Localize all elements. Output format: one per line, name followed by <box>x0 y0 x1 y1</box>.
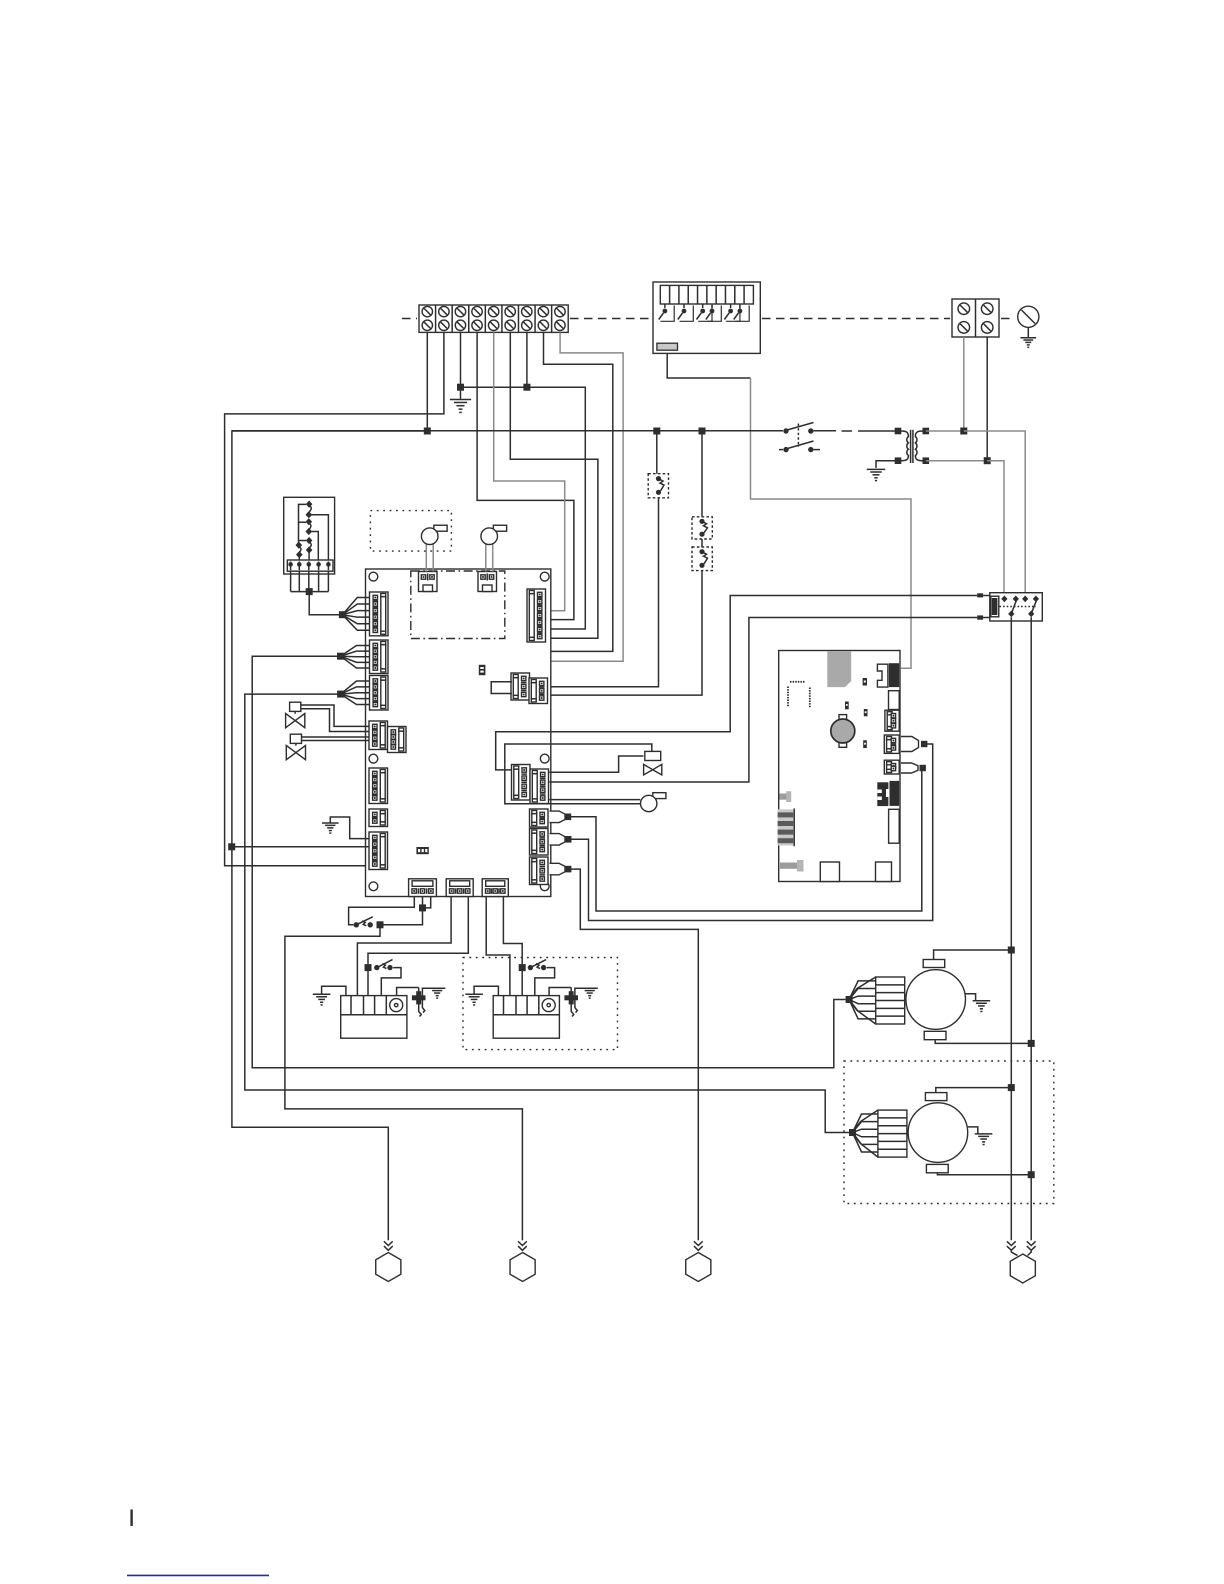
wire M2 top winding <box>936 1088 1012 1093</box>
wire t1 loop down <box>232 431 427 1240</box>
wire JA node to S5 out <box>384 908 423 925</box>
junction t1 <box>424 428 431 435</box>
wire t2 loop to connector C7 <box>225 332 444 865</box>
wire M1 bottom winding <box>935 1040 1031 1043</box>
component DTC on board <box>416 847 428 854</box>
dashed mains line <box>402 318 1013 320</box>
wire relay to motor bottoms <box>1030 617 1032 1240</box>
junction S7 node <box>519 964 526 971</box>
wire t1 drop <box>426 332 428 431</box>
wash motor M1 <box>846 960 991 1040</box>
connector J1 <box>370 592 389 636</box>
wire L1 to float switch <box>656 431 658 474</box>
wire JB pin3 to S6 <box>368 897 468 965</box>
wire S7 to heater2 cell4 <box>535 968 555 996</box>
wire H3 to hose node <box>571 869 698 1240</box>
door switch S1 (DPST) <box>779 423 820 453</box>
junction M1 top <box>1008 947 1015 954</box>
wire node C to motor M2 <box>245 694 849 1132</box>
connector JB <box>446 879 473 897</box>
wire S6 node to heater1 cell3 <box>367 968 369 996</box>
connector J-P2 on board <box>478 572 497 592</box>
connector JC <box>482 879 508 897</box>
thermostat S5 <box>354 917 373 928</box>
chevrons to hose B <box>518 1241 527 1250</box>
drain motor M2 <box>849 1093 992 1173</box>
wire V2 to J4 <box>302 737 370 741</box>
hose fitting C <box>686 1253 711 1282</box>
wire JA pin1 to switch S5 <box>349 897 415 925</box>
connector J5 <box>369 768 388 804</box>
inlet valve V2 <box>286 734 305 760</box>
wire t4 to R1 pin2 <box>477 332 574 619</box>
connector R4 <box>530 809 549 827</box>
wire S7 node to heater2 cell3 <box>521 968 523 996</box>
harness fan to J2 <box>341 646 370 669</box>
harness H1 <box>550 811 572 823</box>
wire transformer secondary-right <box>926 460 987 462</box>
junction M2 top <box>1008 1084 1015 1091</box>
dotted option box around heater E2 <box>463 958 618 1050</box>
wire transformer primary-right <box>926 430 964 432</box>
door switch contacts <box>295 501 328 561</box>
terminal block TB1 (9-position) <box>419 305 568 332</box>
main control board <box>366 569 551 897</box>
connector J3 <box>370 676 389 711</box>
connector R6 <box>530 857 549 885</box>
wire R3 to relay coil bottom <box>549 618 977 783</box>
wire V1 to J4 <box>301 705 369 732</box>
relay K1 <box>977 593 1042 621</box>
thermal fuse F1 <box>397 988 426 1017</box>
page tick <box>130 1510 132 1527</box>
junction harness node A <box>339 611 346 618</box>
wire L1 to thermal switches <box>701 431 703 517</box>
wire door bus to node A <box>309 592 342 615</box>
relay block on UI board <box>877 781 899 806</box>
heatsink on UI board <box>778 809 795 847</box>
wire JC pin1 to heater2 <box>486 897 510 996</box>
board notch 1 <box>820 862 839 882</box>
wire t5 to R1 pin1 <box>494 332 565 610</box>
junction door bus <box>306 588 313 595</box>
connector R1 <box>527 589 546 642</box>
harness fan to J1 <box>342 598 369 631</box>
heater assembly E2 <box>493 996 559 1039</box>
earth ground at heater E1 <box>313 986 346 1005</box>
wire M2 bottom winding <box>937 1173 1031 1175</box>
wire S6 to heater1 cell4 <box>381 968 401 996</box>
junction JA node <box>419 904 426 911</box>
wire H2 to UI harness <box>571 744 932 921</box>
wire t8 to R1 pin5 <box>544 332 613 651</box>
wire float switch to connector R2 <box>551 498 659 687</box>
wire transformer secondary-left to ground <box>876 461 898 468</box>
connector R3 pair <box>512 765 549 804</box>
junction harness node C <box>337 691 344 698</box>
hose fitting D <box>1010 1254 1035 1283</box>
wire mains L1 bus <box>232 430 898 432</box>
earth ground at board left <box>322 817 369 839</box>
board notch 2 <box>876 862 892 882</box>
wire JB pin1 to heater1 <box>357 897 451 996</box>
screw boss bottom <box>780 860 804 872</box>
connector J7 <box>369 832 388 870</box>
white box on UI board <box>889 809 900 843</box>
thermal cutout S3 (dashed box) <box>692 517 712 539</box>
wire to relay K1 contact-a <box>987 461 1004 596</box>
wire TB2 right to secondary node <box>986 337 988 461</box>
wire to relay K1 contact-b <box>964 431 1025 596</box>
wire node B to motor M1 <box>252 656 846 1067</box>
pump P3 <box>641 793 666 812</box>
terminal block TB2 (2-position) <box>952 299 999 337</box>
float switch S2 (dashed box) <box>648 474 668 498</box>
wire S5 to hex2 loop <box>285 925 523 1241</box>
wire pump1 leads <box>426 544 433 571</box>
connector UJ2 <box>884 735 899 753</box>
junction primary-right <box>960 428 967 435</box>
connector UJ3 <box>884 760 899 774</box>
wire t7 drop <box>526 332 528 387</box>
wire JA pin3 to node <box>423 897 431 908</box>
junction L1-b <box>699 428 706 435</box>
connector J-P1 on board <box>419 572 438 592</box>
wire dispenser to UI board <box>667 354 911 669</box>
harness fan to J3 <box>341 681 370 705</box>
transformer T1 <box>895 428 929 464</box>
screw boss left <box>780 791 792 802</box>
wire TB2 left to transformer node <box>963 337 965 431</box>
drain pump P2 <box>481 525 507 544</box>
board mounting holes <box>369 572 549 891</box>
wire R3 to relay coil top <box>496 596 978 770</box>
heater assembly E1 <box>341 996 407 1039</box>
connector R5 <box>530 829 549 856</box>
harness H2 <box>550 834 572 846</box>
wire valve V3 top loop to pump P3 <box>505 744 652 804</box>
wire relay to motor tops <box>1010 617 1012 1240</box>
door switch assembly box <box>284 497 335 574</box>
harness UH1 <box>901 737 927 752</box>
user interface board <box>779 651 900 882</box>
harness UH2 <box>901 763 926 773</box>
wire M1 top winding <box>934 950 1012 960</box>
chevrons to hose D <box>1007 1241 1036 1250</box>
earth ground below t3 <box>450 387 471 412</box>
connector R2 pair <box>511 673 548 704</box>
connector J2 <box>370 640 389 674</box>
wire H1 to UI harness <box>571 768 923 911</box>
hi-limit thermostat S7 <box>528 960 547 971</box>
hose fitting B <box>510 1253 535 1282</box>
thermal cutout S4 (dashed box) <box>692 547 712 571</box>
component TD1 on board <box>479 665 486 675</box>
connector J4 pair <box>369 721 406 753</box>
wash pump P1 <box>421 525 447 544</box>
wire R3 to pump P3 <box>549 799 640 801</box>
dotted option box around motor M2 <box>844 1061 1054 1204</box>
wire t9 to R1 pin6 <box>551 332 623 661</box>
chevrons to hose C <box>694 1241 703 1250</box>
stub loop at R2 <box>491 682 512 694</box>
wire R3 to valve V3 <box>549 756 643 772</box>
chassis ground screw <box>1018 306 1039 347</box>
detergent dispenser switch module <box>653 282 760 353</box>
wire S3 to S4 <box>701 539 703 547</box>
wire door assembly bus <box>291 571 329 591</box>
wire junction to J7 <box>232 846 369 848</box>
footer link line <box>127 1574 269 1576</box>
junction S6 node <box>365 964 372 971</box>
junction S5 out <box>377 921 384 928</box>
junction harness node B <box>337 653 344 660</box>
dotted option box around pump1 <box>370 511 451 551</box>
hose fitting A <box>376 1253 401 1282</box>
junction t3 <box>457 384 464 391</box>
dash-dot module outline on board <box>411 571 505 639</box>
earth ground right of F1 <box>422 988 445 1012</box>
connector UJ1 <box>885 710 899 731</box>
earth ground at heater E2 <box>465 986 498 1005</box>
wire pump2 leads <box>486 544 493 571</box>
wire t3 drop <box>460 332 462 387</box>
connector JA <box>409 879 437 897</box>
junction L1-a <box>653 428 660 435</box>
wire t3-t7 bus to connector R1 pin3 <box>461 387 586 629</box>
junction secondary-right <box>984 457 991 464</box>
connector J6 <box>369 809 388 827</box>
thermal fuse F2 <box>549 988 578 1017</box>
harness H3 <box>550 863 572 875</box>
junction t7 <box>523 384 530 391</box>
wire JA pin2 <box>422 897 424 905</box>
inlet valve V1 <box>286 702 305 728</box>
earth ground at transformer <box>867 469 886 480</box>
junction t1-loop to J7 <box>228 843 235 850</box>
wire t6 to R1 pin4 <box>510 332 598 638</box>
drain valve V3 <box>644 751 662 775</box>
earth ground right of F2 <box>575 988 598 1012</box>
wire merge to hose D <box>1011 1251 1031 1256</box>
junction M1 bottom <box>1028 1040 1035 1047</box>
hi-limit thermostat S6 <box>374 960 393 971</box>
junction M2 bottom <box>1028 1171 1035 1178</box>
wire JC pin3 to S7 <box>503 897 522 965</box>
wire S4 to connector R2 <box>551 571 702 696</box>
chevrons to hose A <box>384 1241 393 1250</box>
